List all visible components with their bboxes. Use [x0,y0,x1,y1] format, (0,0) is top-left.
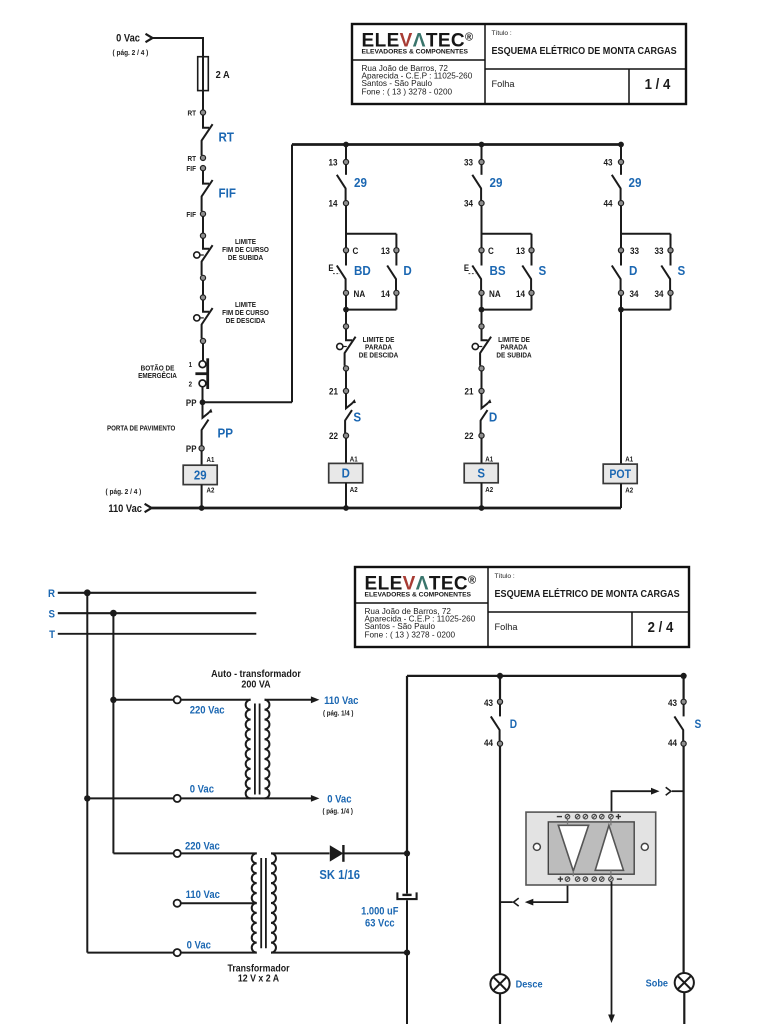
rail DC top [407,675,684,677]
svg-text:0 Vac: 0 Vac [190,784,215,796]
svg-text:E: E [328,264,334,274]
junction DC plus [404,850,410,856]
chevron socket D [514,898,519,906]
wire panel to D arrow [533,884,568,902]
wire to emergency button [202,344,204,361]
trafo2 core [261,858,266,948]
wire branch down to node 33 [481,145,483,160]
svg-text:34: 34 [630,288,639,299]
wire auto secondary top out [265,699,312,701]
wire phase T [58,633,256,635]
contact interlock D 21-22 (NO) [481,394,492,433]
svg-text:34: 34 [654,288,663,299]
svg-text:220 Vac: 220 Vac [190,705,225,717]
wire trafo2 secondary bottom [271,952,407,954]
junction rejoin D [618,307,624,313]
rail 110 Vac [152,507,621,510]
node 34 left [618,290,623,295]
svg-text:A1: A1 [207,456,215,463]
node 43 [618,159,623,164]
wire S to 220Vac terminal [113,699,173,701]
node 13 [343,159,348,164]
svg-text:S: S [539,264,547,279]
autotransformer primary winding [246,700,251,799]
junction rail S [479,505,485,511]
svg-text:29: 29 [629,175,642,190]
node 44 [618,201,623,206]
wire below lamp Desce [499,993,501,1024]
node C left [343,248,348,253]
svg-text:LIMITE DE: LIMITE DE [498,336,530,343]
svg-text:LIMITE DE: LIMITE DE [363,336,395,343]
svg-text:FIM DE CURSO: FIM DE CURSO [222,247,269,254]
svg-text:A1: A1 [350,456,358,463]
svg-text:Título :: Título : [495,573,515,580]
svg-text:110 Vac: 110 Vac [186,890,221,902]
svg-text:A1: A1 [625,456,633,463]
svg-text:0 Vac: 0 Vac [116,33,140,45]
svg-text:44: 44 [603,198,612,209]
svg-text:0 Vac: 0 Vac [327,794,352,806]
node PP lower [199,446,204,451]
wire split bar BD [346,206,396,248]
wire phase S [58,612,256,614]
svg-text:13: 13 [328,157,337,168]
svg-text:33: 33 [630,246,639,257]
svg-text:29: 29 [194,468,207,483]
panel terminal screws top row [557,814,621,819]
node 44 D [497,741,502,746]
svg-text:S: S [477,466,485,481]
node limit upper D [343,324,348,329]
node 34 right [668,290,673,295]
coil 29 [183,465,217,484]
autotransformer secondary winding [265,700,270,799]
svg-text:A1: A1 [485,456,493,463]
svg-text:A2: A2 [350,487,358,494]
junction D lamp branch [497,673,503,679]
svg-text:200 VA: 200 VA [241,679,270,691]
bus right of PP [291,145,293,403]
roller limit parada D [337,343,347,349]
svg-text:S: S [353,410,361,425]
contact D (NO) [612,253,621,290]
arrow plug D [525,899,534,906]
svg-text:NA: NA [489,288,501,299]
node NA left [343,290,348,295]
coil S [464,463,498,482]
wire limit to 21 S [481,371,483,388]
svg-text:14: 14 [328,198,337,209]
svg-text:PARADA: PARADA [501,344,528,351]
wire capacitor to DC minus [406,900,408,952]
wire 0Vac terminal to trafo2 [181,952,257,954]
lamp Desce [490,974,509,993]
svg-text:LIMITE: LIMITE [235,302,256,309]
roller limit subida [194,252,204,258]
svg-text:( pág. 2 / 4 ): ( pág. 2 / 4 ) [113,50,149,57]
wire D branch to lamp [499,746,501,974]
panel terminal screws bottom row [558,877,622,882]
terminal 0 Vac trafo2 [174,949,181,956]
contact FIF (NC) [202,171,213,212]
contact S lamp (NO) [674,704,683,741]
wire panel bottom center output [611,882,613,1015]
panel mounting hole left [533,843,540,850]
node 13 right [529,248,534,253]
svg-text:D: D [489,410,497,425]
title block folha 1/4 [352,24,686,104]
svg-text:44: 44 [668,737,677,748]
node 14 right [529,290,534,295]
svg-text:14: 14 [516,288,525,299]
diode D1 SK 1/16 [330,845,344,862]
wire branch down to node 43 [620,145,622,160]
wire POT long [620,310,622,464]
svg-text:Folha: Folha [495,622,519,632]
wire D branch top [499,676,501,699]
capacitor C1 1000uF electrolytic [397,892,416,899]
svg-text:C: C [488,246,495,257]
svg-text:EMERGÊCIA: EMERGÊCIA [138,371,177,381]
stub connector S [672,790,684,792]
mechanical link dashes [469,273,476,275]
wire below lamp Sobe [683,992,685,1024]
svg-text:21: 21 [464,386,473,397]
wire fuse to RT node [202,91,204,110]
svg-text:PP: PP [186,398,197,409]
wire split bar BS [482,206,532,248]
svg-text:S: S [678,264,686,279]
junction R tap [84,589,91,596]
node 43 S [681,699,686,704]
svg-text:D: D [510,719,517,732]
wire phase R [58,592,256,594]
wire split bar D [621,206,671,248]
wire POT to rail [620,484,622,509]
svg-text:33: 33 [654,246,663,257]
svg-text:Folha: Folha [492,79,516,89]
wire DC plus riser [406,676,408,854]
svg-text:ESQUEMA ELÉTRICO DE MONTA CARG: ESQUEMA ELÉTRICO DE MONTA CARGAS [492,46,678,58]
wire PP node to right bus [203,401,293,403]
wire FIF to limit subida [202,217,204,234]
svg-text:( pág. 1/4 ): ( pág. 1/4 ) [323,808,353,815]
contact PP porta de pavimento (NO) [202,405,213,446]
svg-text:D: D [403,264,411,279]
svg-text:R: R [48,589,55,601]
svg-text:43: 43 [484,697,493,708]
svg-text:110 Vac: 110 Vac [108,504,142,516]
wire rejoin to limit D [345,310,347,324]
contact S right (NO) [661,253,670,290]
node RT lower [200,155,205,160]
svg-text:D: D [342,466,350,481]
svg-text:RT: RT [219,130,235,145]
wire coil D to rail [345,483,347,508]
svg-text:BS: BS [490,264,506,279]
chevron socket S [666,787,671,795]
emergency push button BOTAO DE EMERGENCIA [195,358,207,389]
svg-text:PP: PP [218,426,233,441]
svg-text:FIF: FIF [219,186,237,201]
svg-text:ELEVADORES & COMPONENTES: ELEVADORES & COMPONENTES [362,49,469,56]
roller limit parada S [472,343,482,349]
wire DC minus down off-page [406,953,408,1024]
svg-text:FIF: FIF [186,166,196,173]
svg-text:21: 21 [329,386,338,397]
trafo2 secondary winding [271,853,276,952]
node 14 right [394,290,399,295]
contact 29 aux 43-44 (NO) [612,165,621,201]
wire trafo2 secondary top to diode [271,852,330,854]
node limit lower S [479,366,484,371]
svg-text:1 / 4: 1 / 4 [645,75,671,92]
node RT upper [200,110,205,115]
wire button to PP node [202,387,204,400]
svg-text:1.000 uF: 1.000 uF [361,906,398,918]
svg-text:ELEVADORES & COMPONENTES: ELEVADORES & COMPONENTES [365,592,472,599]
svg-text:D: D [629,264,637,279]
wire 0 Vac feed to fuse [153,38,204,57]
node limit descida upper [200,295,205,300]
svg-text:29: 29 [490,175,503,190]
svg-text:Fone : ( 13 ) 3278 - 0200: Fone : ( 13 ) 3278 - 0200 [362,87,453,96]
svg-text:1: 1 [189,362,193,369]
contact S right (NO) [522,253,531,290]
svg-text:Título :: Título : [492,30,512,37]
svg-text:43: 43 [668,697,677,708]
svg-text:22: 22 [464,430,473,441]
svg-text:BOTÃO DE: BOTÃO DE [141,363,175,373]
wire R to 0Vac terminal [87,797,173,799]
junction R / 0Vac auto [84,795,90,801]
svg-text:( pág. 1/4 ): ( pág. 1/4 ) [323,710,353,717]
svg-text:( pág. 2 / 4 ): ( pág. 2 / 4 ) [106,489,142,496]
svg-text:BD: BD [354,264,371,279]
svg-text:34: 34 [464,198,473,209]
svg-text:220 Vac: 220 Vac [185,841,220,853]
wire S to 220Vac trafo2 [113,852,173,854]
svg-text:S: S [49,609,56,621]
svg-text:ESQUEMA ELÉTRICO DE MONTA CARG: ESQUEMA ELÉTRICO DE MONTA CARGAS [495,589,681,601]
contact 29 aux 13-14 (NO) [337,165,346,201]
limit switch fim de curso de subida (NC) [202,238,213,275]
node limit subida upper [200,233,205,238]
junction S / 220Vac auto [110,697,116,703]
node 44 S [681,741,686,746]
title block folha 2/4 [355,567,689,647]
junction top rail / branch b1 [343,142,349,148]
wire 110Vac terminal to trafo2 [181,902,257,904]
entry arrow 110 Vac [145,504,152,512]
svg-text:12 V x 2 A: 12 V x 2 A [238,972,279,984]
svg-text:T: T [49,630,56,642]
wire diode to DC node [343,852,407,854]
trafo2 primary winding [252,853,257,952]
junction rail D [343,505,349,511]
svg-text:A2: A2 [485,487,493,494]
svg-text:DE SUBIDA: DE SUBIDA [228,255,263,262]
svg-text:Desce: Desce [516,979,543,991]
svg-text:DE SUBIDA: DE SUBIDA [496,352,531,359]
terminal 220 Vac trafo2 [174,850,181,857]
junction top rail / branch b2 [479,142,485,148]
wire R tap down [86,593,88,953]
junction top rail / branch b3 [618,142,624,148]
indicator panel (up/down display) [526,812,656,885]
node 13 right [394,248,399,253]
coil D [329,463,363,482]
node 34 [479,201,484,206]
wire coil S to rail [481,483,483,508]
svg-text:63 Vcc: 63 Vcc [365,918,395,930]
contact RT (NC) [202,115,213,155]
contact interlock S 21-22 (NO) [345,394,356,433]
wire 220Vac terminal to trafo2 [181,852,257,854]
limit switch parada D (NC) [345,329,356,366]
wire 22 to coil D [345,438,347,463]
roller limit descida [194,315,204,321]
svg-text:43: 43 [603,157,612,168]
wire panel to S arrow [612,791,652,814]
svg-text:14: 14 [381,288,390,299]
svg-text:NA: NA [354,288,366,299]
arrow panel output down [608,1015,615,1024]
panel up triangle [595,825,623,870]
junction PP [200,399,206,405]
svg-text:PORTA DE PAVIMENTO: PORTA DE PAVIMENTO [107,425,175,432]
wire 0Vac bottom rail auto [181,797,311,799]
arrow 0 Vac out [311,795,320,802]
svg-text:13: 13 [381,246,390,257]
junction S tap [110,610,117,617]
wire S branch top [682,676,684,699]
svg-text:44: 44 [484,737,493,748]
stub connector D [500,901,513,903]
node limit lower D [343,366,348,371]
junction DC minus [404,950,410,956]
node limit subida lower [200,275,205,280]
wire rejoin to limit S [481,310,483,324]
svg-text:A2: A2 [207,487,215,494]
contact BD (NO) [337,253,346,290]
junction coil29 / rail [199,505,205,511]
junction rejoin BD [343,307,349,313]
contact 29 aux 33-34 (NO) [472,165,481,201]
arrow plug S [651,788,660,795]
node FIF upper [200,166,205,171]
svg-text:FIM DE CURSO: FIM DE CURSO [222,310,269,317]
svg-text:E: E [464,264,470,274]
contact D right (NO) [387,253,396,290]
node 33 right [668,248,673,253]
contact BS (NO) [472,253,481,290]
svg-text:POT: POT [609,469,631,482]
fuse F1 2A [198,57,209,91]
mechanical link dashes [333,273,340,275]
node 22 D [343,433,348,438]
node C left [479,248,484,253]
wire R to 0Vac trafo2 [87,952,173,954]
node 21 S [479,388,484,393]
lamp Sobe [675,973,694,992]
svg-text:LIMITE: LIMITE [235,239,256,246]
terminal 110 Vac trafo2 [174,900,181,907]
wire S branch to lamp [682,746,684,973]
coil POT [603,464,637,483]
wire rejoin bar D [621,296,671,310]
contact D lamp (NO) [491,704,500,741]
autotransformer core [255,704,260,795]
junction S lamp branch corner [681,673,687,679]
terminal 220 Vac auto [174,696,181,703]
wire branch down to node 13 [345,145,347,160]
node NA left [479,290,484,295]
rail top control bus [292,143,621,146]
wire limit to 21 D [345,371,347,388]
svg-text:29: 29 [354,175,367,190]
svg-text:13: 13 [516,246,525,257]
wire DC node to capacitor [406,853,408,893]
svg-text:Sobe: Sobe [646,978,669,990]
svg-text:SK 1/16: SK 1/16 [319,867,360,882]
svg-text:2 / 4: 2 / 4 [648,618,674,635]
wire 22 to coil S [481,438,483,463]
node 33 [479,159,484,164]
svg-text:S: S [695,719,702,732]
svg-text:A2: A2 [625,487,633,494]
svg-text:FIF: FIF [186,212,196,219]
node FIF lower [200,211,205,216]
svg-text:DE DESCIDA: DE DESCIDA [226,318,266,325]
wire PP to coil 29 [201,451,203,465]
svg-text:RT: RT [187,156,196,163]
node 43 D [497,699,502,704]
wire S tap down [112,613,114,853]
wire limit subida to limit descida [202,281,204,296]
entry arrow 0 Vac [146,34,153,42]
panel down triangle [558,825,588,871]
svg-text:0 Vac: 0 Vac [187,940,212,952]
wire rejoin bar BD [346,296,396,310]
svg-text:Fone : ( 13 ) 3278 - 0200: Fone : ( 13 ) 3278 - 0200 [365,630,456,639]
node 33 left [618,248,623,253]
node limit descida lower [200,338,205,343]
svg-text:RT: RT [187,110,196,117]
svg-text:PP: PP [186,444,197,455]
terminal 0 Vac auto [174,795,181,802]
svg-text:C: C [353,246,360,257]
svg-text:DE DESCIDA: DE DESCIDA [359,352,399,359]
svg-text:PARADA: PARADA [365,344,392,351]
panel internal stubs [568,820,611,877]
svg-text:110 Vac: 110 Vac [324,695,359,707]
arrow 110 Vac out [311,696,320,703]
wire 220Vac terminal to winding [181,699,251,701]
node limit upper S [479,324,484,329]
svg-text:22: 22 [329,430,338,441]
svg-text:2 A: 2 A [216,70,230,82]
node 14 [343,201,348,206]
node 21 D [343,388,348,393]
limit switch parada S (NC) [480,329,491,366]
wire rejoin bar BS [482,296,532,310]
panel mounting hole right [641,843,648,850]
limit switch fim de curso de descida (NC) [202,300,213,338]
svg-text:2: 2 [189,381,193,388]
junction rejoin BS [479,307,485,313]
